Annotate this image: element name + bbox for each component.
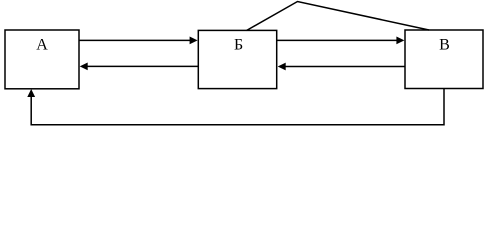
svg-text:Б: Б [234,37,243,54]
svg-text:А: А [36,37,48,54]
feedback wire V bottom to A bottom [31,89,444,125]
wire B to A return [88,65,199,67]
peaked wire B over to V [247,2,430,31]
arrowhead feedback into A [27,89,35,97]
wire V to B return [286,66,406,68]
arrowhead B to V [396,37,404,45]
wire B to V top [277,39,397,41]
block V(В) [405,30,483,89]
block A [5,30,79,89]
arrowhead B to A [80,63,88,71]
arrowhead V to B [278,63,286,71]
block B(Б) [198,30,276,88]
arrowhead A to B [190,37,198,45]
svg-text:В: В [439,37,450,54]
wire A to B top [79,39,190,41]
